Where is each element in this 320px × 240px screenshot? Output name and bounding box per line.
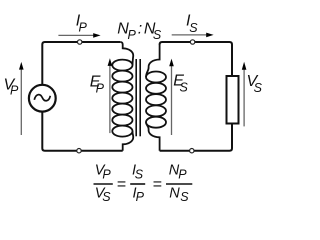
wire: top-left segment [42, 42, 120, 85]
label E_P [90, 74, 105, 96]
wire: bottom-left segment [42, 112, 122, 151]
svg-text:S: S [254, 81, 263, 95]
terminal node top-right [190, 40, 194, 44]
svg-text:S: S [189, 21, 198, 35]
equation V_P/V_S = I_S/I_P = N_P/N_S [94, 163, 193, 205]
label N_P : N_S [117, 21, 162, 43]
arrow V_S [242, 62, 247, 127]
svg-text:S: S [153, 28, 162, 42]
wire: bottom-right segment [160, 124, 232, 151]
svg-text:S: S [102, 190, 111, 204]
svg-text:=: = [153, 176, 162, 193]
svg-text:P: P [79, 20, 88, 34]
transformer core [136, 59, 140, 136]
arrow E_S [169, 59, 174, 135]
svg-text:S: S [180, 190, 189, 204]
svg-text:P: P [128, 28, 137, 42]
label I_S [186, 12, 198, 35]
svg-text:P: P [10, 84, 19, 98]
label V_S [247, 73, 263, 95]
arrow V_P [19, 62, 24, 135]
svg-text:S: S [135, 167, 144, 181]
wire: top-right segment [160, 42, 232, 76]
terminal node bottom-right [190, 149, 194, 153]
svg-text::: : [138, 21, 142, 38]
svg-text:P: P [96, 82, 105, 96]
arrow E_P [108, 58, 113, 133]
arrow I_P [58, 33, 100, 38]
label E_S [173, 73, 188, 95]
svg-text:P: P [102, 167, 111, 181]
svg-text:P: P [178, 167, 187, 181]
transformer primary winding N_P [112, 42, 133, 151]
arrow I_S [172, 33, 214, 38]
label I_P [76, 12, 88, 34]
transformer secondary winding N_S [146, 44, 166, 151]
AC source V_P [29, 85, 56, 112]
terminal node top-left [78, 40, 82, 44]
label V_P [4, 77, 20, 98]
svg-text:P: P [136, 190, 145, 204]
terminal node bottom-left [77, 149, 81, 153]
svg-text:=: = [117, 176, 126, 193]
svg-text:S: S [180, 80, 189, 94]
svg-text:N: N [169, 186, 180, 202]
resistor (load) [227, 76, 239, 124]
